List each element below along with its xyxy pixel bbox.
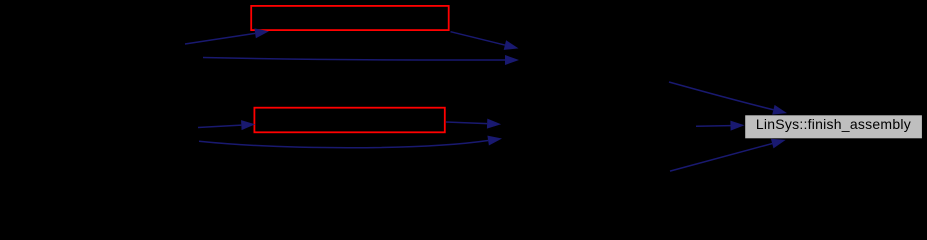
edge wire E9: caller -> hidden node4 (arc under box2): [199, 136, 502, 148]
node LinSys::finish_assembly (grey filled): [745, 115, 923, 139]
edge wire E3: caller -> red box2: [198, 120, 255, 130]
node M1 red box (top, truncated node): [251, 6, 449, 30]
edge wire E4: red box1 -> hidden node3: [451, 32, 519, 50]
edge wire E5: hidden node3 -> LinSys::finish_assembly (top): [669, 82, 787, 115]
svg-text:LinSys::finish_assembly: LinSys::finish_assembly: [756, 116, 911, 132]
edge wire E6: hidden node4 -> LinSys::finish_assembly (left): [696, 121, 745, 131]
edge wire E7: hidden node5 -> LinSys::finish_assembly (bottom): [670, 139, 786, 171]
edge wire E2: caller -> hidden node3 (long): [203, 55, 519, 65]
node M2 red box (bottom, truncated node): [254, 108, 444, 133]
edge wire E1: caller -> red box1: [185, 28, 269, 44]
edge wire E8: red box2 -> hidden node4: [446, 119, 501, 129]
